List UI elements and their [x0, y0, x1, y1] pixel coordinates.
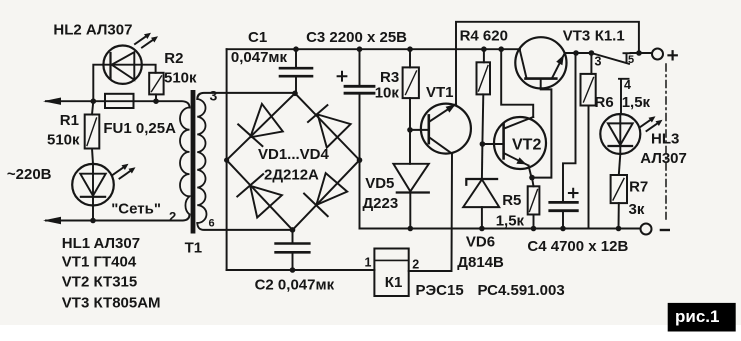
svg-text:2Д212А: 2Д212А: [264, 167, 319, 184]
terminal - output: [641, 224, 652, 235]
node: R3 top: [407, 46, 413, 52]
svg-text:ГТ404: ГТ404: [94, 253, 137, 270]
svg-text:С1: С1: [248, 29, 267, 46]
svg-text:С2 0,047мк: С2 0,047мк: [255, 277, 335, 294]
bridge diamond: [227, 93, 360, 230]
wire: rail to VT2 collector: [501, 49, 533, 117]
resistor R5: [528, 186, 540, 214]
node: HL1 bottom junction: [90, 218, 96, 224]
wire: minus rail: [360, 228, 641, 230]
node: bridge bottom corner: [290, 227, 296, 233]
wire: bottom rail to relay: [227, 269, 375, 271]
wire: bottom AC wire with left arrow: [46, 215, 190, 221]
node: R7 bottom: [616, 226, 622, 232]
node: junction R2 bottom: [153, 98, 159, 104]
resistor R4: [477, 62, 491, 94]
svg-text:510к: 510к: [164, 69, 197, 86]
node: junction R1/HL2 top wire: [91, 98, 97, 104]
svg-text:R7: R7: [629, 178, 648, 195]
svg-text:5: 5: [628, 54, 634, 66]
transistor VT1: [421, 104, 471, 154]
secondary winding: [197, 99, 206, 223]
wire: C4 top branch: [563, 53, 576, 202]
svg-text:VT1: VT1: [426, 84, 454, 101]
svg-text:АЛ307: АЛ307: [94, 235, 141, 252]
LED HL1: [72, 164, 114, 206]
transformer core: [191, 90, 196, 234]
wire: top AC wire with left arrow: [46, 100, 105, 102]
svg-text:С4 4700 х 12В: С4 4700 х 12В: [527, 238, 628, 255]
svg-text:0,047мк: 0,047мк: [231, 49, 288, 66]
capacitor C2: [276, 230, 310, 270]
capacitor C1: [280, 49, 312, 93]
wire: VT3 emitter output: [565, 52, 592, 54]
svg-text:R1: R1: [60, 112, 79, 129]
node: R4 top: [481, 46, 487, 52]
svg-text:Д814В: Д814В: [457, 254, 504, 271]
diode VD2 (top-right): [308, 105, 351, 147]
svg-text:FU1 0,25А: FU1 0,25А: [103, 120, 176, 137]
wire: R6 top lead (pin3): [590, 53, 592, 74]
HL3 emission arrows: [640, 116, 663, 131]
svg-text:4: 4: [624, 78, 631, 92]
wire: VT1 base: [410, 129, 429, 131]
svg-text:HL1: HL1: [62, 235, 90, 252]
svg-text:1,5к: 1,5к: [496, 212, 525, 229]
arrow head top left: [46, 100, 60, 102]
svg-text:3: 3: [210, 88, 218, 104]
svg-text:рис.1: рис.1: [675, 307, 719, 326]
svg-text:VD6: VD6: [466, 234, 495, 251]
wire: VT1 emitter up and over box to + output: [456, 22, 639, 104]
diode VD1 (top-left): [238, 104, 283, 146]
svg-text:К1: К1: [385, 274, 403, 291]
relay K1 box: [374, 249, 408, 297]
svg-text:Д223: Д223: [363, 195, 399, 212]
svg-text:510к: 510к: [47, 131, 80, 148]
plus sign C4: [569, 189, 578, 198]
transistor VT2: [494, 117, 546, 169]
wire: main top rail: [227, 48, 520, 50]
resistor R3: [403, 67, 419, 98]
svg-text:"Сеть": "Сеть": [111, 200, 161, 217]
diode VD4 (bottom-right): [304, 173, 347, 216]
svg-text:VT2: VT2: [62, 274, 90, 291]
node: rail drop to VT2 collector: [498, 46, 504, 52]
transistor VT3: [515, 37, 566, 88]
resistor R2: [149, 73, 163, 95]
node: C1 top: [293, 46, 299, 52]
svg-text:~220В: ~220В: [7, 166, 52, 183]
node: VD5 bottom: [408, 226, 414, 232]
svg-text:VT3: VT3: [563, 28, 591, 45]
node: contact pin3 junction: [589, 50, 595, 56]
capacitor C4: [550, 202, 578, 228]
capacitor C3: [345, 49, 374, 160]
fuse FU1: [105, 94, 134, 108]
svg-text:VD5: VD5: [365, 175, 394, 192]
svg-text:1,5к: 1,5к: [622, 94, 651, 111]
svg-text:R3: R3: [380, 69, 399, 86]
node: after contact: [636, 50, 642, 56]
svg-text:VD1...VD4: VD1...VD4: [258, 146, 330, 163]
svg-text:2: 2: [169, 209, 176, 224]
svg-text:1: 1: [365, 256, 372, 270]
contact pin 4 lead to HL3: [619, 79, 629, 114]
plus sign C3: [338, 72, 347, 81]
node: bridge top corner: [292, 91, 298, 97]
svg-text:HL3: HL3: [651, 130, 679, 147]
resistor R6: [581, 74, 596, 106]
HL1 emission arrows: [113, 164, 136, 179]
node: R3/VD5/VT1 base junction: [407, 127, 413, 133]
primary winding: [180, 108, 190, 215]
svg-text:3: 3: [595, 54, 602, 68]
svg-text:R4 620: R4 620: [460, 28, 508, 45]
svg-text:R6: R6: [595, 94, 614, 111]
diode VD3 (bottom-left): [237, 174, 282, 217]
svg-text:3к: 3к: [629, 201, 645, 218]
resistor R1: [85, 115, 100, 149]
minus sign output: [661, 229, 669, 231]
svg-text:6: 6: [209, 218, 215, 230]
svg-text:К1.1: К1.1: [595, 28, 625, 45]
resistor R7: [611, 175, 627, 203]
svg-text:Т1: Т1: [185, 239, 203, 256]
svg-text:10к: 10к: [375, 85, 400, 102]
svg-text:VT2: VT2: [512, 136, 541, 153]
wire: VT2 base: [482, 143, 503, 145]
svg-text:АЛ307: АЛ307: [640, 150, 687, 167]
svg-text:С3 2200 х 25В: С3 2200 х 25В: [306, 29, 407, 46]
diode VD5: [393, 130, 428, 229]
wire: VT1 collector down to K1: [409, 154, 452, 271]
boundary dash-dot line: [665, 64, 667, 219]
svg-text:R2: R2: [164, 50, 183, 67]
svg-text:HL2 АЛ307: HL2 АЛ307: [53, 21, 132, 38]
zener VD6: [463, 179, 499, 229]
LED HL3: [600, 114, 640, 154]
wire: HL2 right to R2: [142, 65, 156, 73]
svg-text:2: 2: [412, 258, 419, 272]
HL2 emission arrows: [135, 33, 158, 48]
ris.1 black box: [668, 303, 736, 332]
node: C4 branch on output wire: [573, 50, 579, 56]
node: bridge left corner: [224, 158, 229, 163]
node: R5 bottom: [531, 226, 537, 232]
node: VT2 base junction: [480, 141, 486, 147]
wire: secondary bottom tap 6 to bridge bottom: [197, 223, 292, 230]
terminal + output: [652, 49, 663, 60]
node: bridge right corner: [357, 157, 363, 163]
node: C2 bottom: [290, 267, 296, 273]
node: VT2 emitter junction: [529, 175, 535, 181]
svg-text:VT1: VT1: [62, 253, 90, 270]
svg-text:КТ315: КТ315: [94, 274, 138, 291]
wire: bridge right corner down to minus rail: [359, 160, 361, 228]
svg-text:РЭС15: РЭС15: [416, 282, 464, 299]
wire: VT3 base to VT2 collector node: [532, 79, 551, 178]
wire: left vertical (+ rail drop): [226, 49, 228, 270]
plus sign output: [669, 51, 677, 59]
node: VD6 bottom: [479, 226, 485, 232]
node: C4 bottom: [560, 226, 566, 232]
LED HL2: [103, 45, 141, 83]
svg-text:КТ805АМ: КТ805АМ: [94, 295, 161, 312]
wire: VD6 top lead: [481, 144, 484, 179]
node: C3 top: [357, 46, 363, 52]
svg-text:VT3: VT3: [62, 295, 90, 312]
wire: VT2 emitter down: [529, 166, 532, 178]
svg-text:РС4.591.003: РС4.591.003: [478, 282, 565, 299]
wire: secondary top tap 3 to bridge: [197, 93, 295, 99]
contact K1.1: [591, 53, 652, 64]
wire: HL2 left leg: [93, 65, 103, 102]
svg-text:R5: R5: [502, 192, 521, 209]
